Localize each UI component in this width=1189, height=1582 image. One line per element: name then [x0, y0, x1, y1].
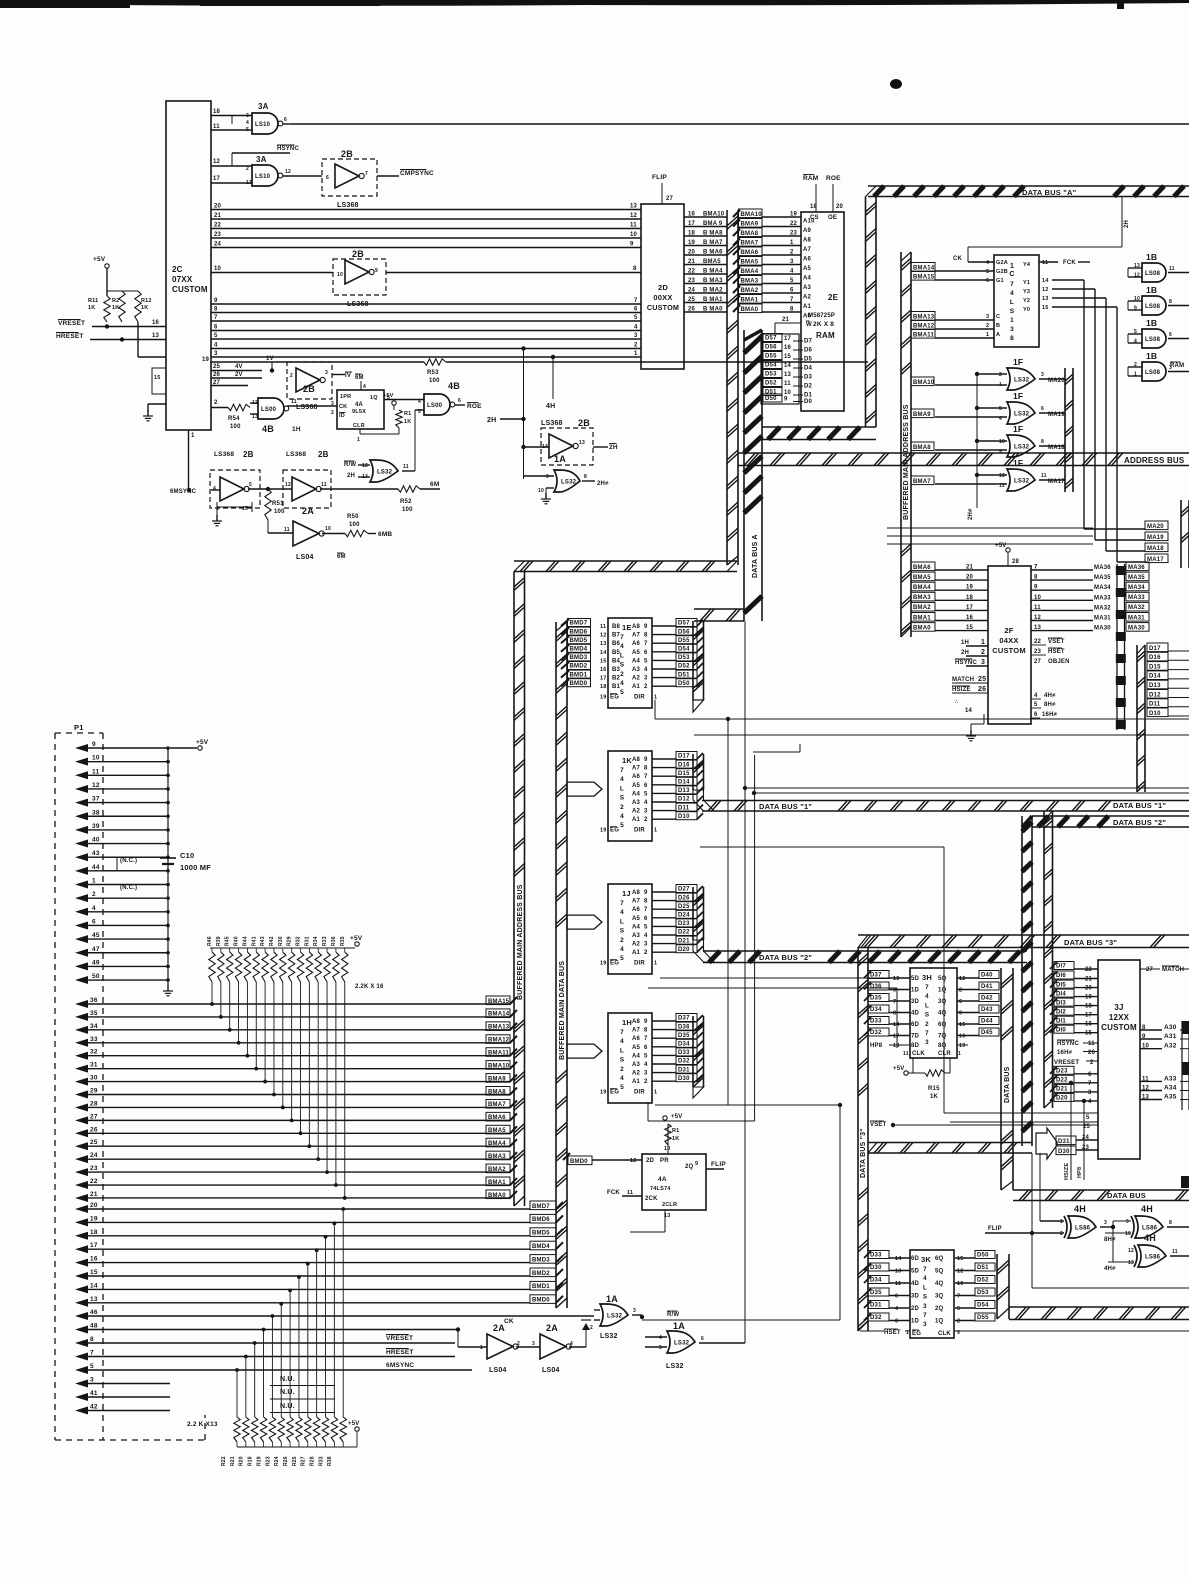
svg-text:2: 2: [959, 988, 962, 994]
svg-text:24: 24: [90, 1152, 98, 1159]
svg-text:9: 9: [1134, 306, 1137, 312]
svg-text:4: 4: [1034, 693, 1038, 699]
svg-text:A: A: [996, 332, 1000, 338]
svg-text:A6: A6: [632, 1036, 641, 1042]
svg-text:3: 3: [923, 1321, 927, 1328]
svg-text:6: 6: [634, 307, 638, 313]
svg-text:R51: R51: [272, 501, 284, 507]
svg-text:7: 7: [620, 1029, 624, 1036]
svg-text:25: 25: [213, 364, 221, 370]
svg-text:21: 21: [688, 259, 696, 265]
svg-text:2.2 K X13: 2.2 K X13: [187, 1421, 218, 1428]
svg-text:12: 12: [285, 169, 291, 175]
svg-text:BMD5: BMD5: [532, 1231, 550, 1237]
svg-text:11: 11: [1042, 260, 1048, 266]
svg-text:1: 1: [958, 1051, 961, 1057]
svg-text:17: 17: [600, 676, 607, 682]
svg-text:3A: 3A: [258, 102, 269, 111]
svg-text:4: 4: [570, 1341, 573, 1347]
svg-text:C10: C10: [180, 851, 194, 860]
svg-text:B MA3: B MA3: [703, 278, 723, 284]
svg-text:+5V: +5V: [893, 1066, 904, 1072]
svg-text:ROE: ROE: [467, 403, 482, 410]
svg-text:B3: B3: [612, 667, 621, 673]
svg-text:7: 7: [923, 1266, 927, 1273]
svg-text:10: 10: [538, 488, 544, 494]
svg-text:2E: 2E: [828, 293, 839, 302]
svg-text:CK: CK: [504, 1318, 514, 1325]
svg-text:7: 7: [214, 315, 218, 321]
svg-text:8: 8: [644, 633, 648, 639]
svg-text:CS: CS: [810, 215, 819, 221]
svg-text:12: 12: [1134, 273, 1140, 279]
svg-text:9: 9: [644, 757, 648, 763]
svg-text:8: 8: [644, 766, 648, 772]
svg-text:1: 1: [790, 240, 794, 246]
svg-text:A6: A6: [632, 774, 641, 780]
svg-text:22: 22: [90, 1178, 98, 1185]
svg-text:48: 48: [90, 1323, 98, 1330]
svg-text:19: 19: [959, 1043, 966, 1049]
svg-text:13: 13: [893, 976, 900, 982]
svg-text:MA20: MA20: [1048, 378, 1065, 384]
svg-text:DATA BUS: DATA BUS: [1107, 1191, 1146, 1200]
svg-text:8H≠: 8H≠: [1104, 1237, 1116, 1243]
svg-text:3: 3: [331, 401, 334, 407]
svg-text:VRESET: VRESET: [58, 320, 85, 327]
svg-text:2H≠: 2H≠: [968, 508, 974, 520]
svg-text:RAM: RAM: [816, 331, 835, 340]
svg-text:3: 3: [1010, 326, 1014, 333]
svg-text:7D: 7D: [911, 1034, 920, 1040]
svg-text:14: 14: [1042, 278, 1049, 284]
svg-text:MATCH: MATCH: [952, 677, 974, 683]
svg-text:A35: A35: [1164, 1094, 1177, 1101]
svg-text:D14: D14: [678, 780, 690, 786]
svg-text:D22: D22: [678, 930, 690, 936]
svg-text:6: 6: [701, 1336, 704, 1342]
svg-text:D57: D57: [765, 336, 777, 342]
svg-text:MA31: MA31: [1094, 616, 1111, 622]
svg-text:8: 8: [893, 1011, 896, 1017]
svg-text:D13: D13: [678, 788, 690, 794]
svg-text:10: 10: [92, 755, 100, 762]
svg-text:BMA15: BMA15: [488, 999, 510, 1005]
svg-text:CLR: CLR: [353, 423, 365, 429]
svg-text:R27: R27: [301, 1456, 307, 1466]
svg-text:D11: D11: [678, 805, 690, 811]
svg-text:1Q: 1Q: [935, 1319, 944, 1325]
svg-text:9: 9: [644, 890, 648, 896]
svg-text:D27: D27: [678, 887, 690, 893]
svg-text:MA30: MA30: [1128, 625, 1145, 631]
svg-text:8: 8: [644, 1028, 648, 1034]
svg-text:BMD7: BMD7: [570, 621, 588, 627]
svg-text:G2A: G2A: [996, 260, 1008, 266]
svg-text:13: 13: [90, 1296, 98, 1303]
svg-text:4: 4: [644, 800, 648, 806]
svg-text:D25: D25: [678, 904, 690, 910]
svg-text:D51: D51: [678, 672, 690, 678]
svg-text:A4: A4: [632, 791, 641, 797]
svg-text:2: 2: [92, 891, 96, 898]
svg-text:21: 21: [782, 317, 790, 323]
svg-text:MA19: MA19: [1048, 412, 1065, 418]
svg-text:13: 13: [600, 641, 607, 647]
svg-text:6: 6: [790, 288, 794, 294]
svg-text:BMA10: BMA10: [913, 380, 935, 386]
svg-text:A8: A8: [632, 890, 641, 896]
svg-text:4: 4: [620, 909, 624, 916]
svg-text:BMD5: BMD5: [570, 638, 588, 644]
svg-text:19: 19: [1085, 995, 1093, 1001]
svg-text:6: 6: [644, 1045, 648, 1051]
svg-text:19: 19: [790, 212, 798, 218]
svg-text:LS86: LS86: [1142, 1225, 1158, 1231]
svg-text:D35: D35: [678, 1033, 690, 1039]
svg-text:A3: A3: [632, 933, 641, 939]
svg-text:HSET: HSET: [1048, 649, 1065, 655]
svg-text:BUFFERED MAIN ADDRESS BUS: BUFFERED MAIN ADDRESS BUS: [517, 884, 524, 1000]
svg-text:A3: A3: [632, 1062, 641, 1068]
svg-text:3: 3: [925, 1039, 929, 1046]
svg-text:19: 19: [600, 1090, 607, 1096]
svg-text:3: 3: [644, 676, 648, 682]
svg-text:1: 1: [1010, 263, 1014, 270]
svg-text:R45: R45: [225, 936, 231, 946]
svg-text:50: 50: [92, 973, 100, 980]
svg-text:4: 4: [790, 269, 794, 275]
svg-text:LS32: LS32: [600, 1333, 618, 1340]
svg-text:A6: A6: [632, 907, 641, 913]
svg-text:CLK: CLK: [938, 1331, 951, 1337]
svg-text:D37: D37: [678, 1016, 690, 1022]
svg-text:R24: R24: [274, 1456, 280, 1466]
svg-text:LS08: LS08: [1145, 304, 1161, 310]
svg-text:4: 4: [214, 343, 218, 349]
svg-text:6M: 6M: [355, 375, 364, 381]
svg-text:LS368: LS368: [214, 451, 234, 458]
svg-text:16: 16: [152, 320, 160, 326]
svg-text:C: C: [1009, 271, 1014, 278]
svg-text:A7: A7: [632, 899, 641, 905]
svg-text:BMD0: BMD0: [532, 1298, 550, 1304]
svg-text:8: 8: [584, 474, 587, 480]
svg-text:1: 1: [654, 695, 657, 701]
svg-text:11: 11: [1172, 1249, 1178, 1255]
svg-text:4Q: 4Q: [938, 1011, 947, 1017]
svg-text:16: 16: [959, 1034, 966, 1040]
svg-text:12: 12: [1034, 615, 1042, 621]
svg-text:11: 11: [895, 1281, 901, 1287]
svg-text:DIR: DIR: [634, 828, 645, 834]
svg-text:6: 6: [1088, 1072, 1092, 1078]
svg-text:DI3: DI3: [1056, 1000, 1066, 1006]
svg-text:D54: D54: [765, 363, 777, 369]
svg-text:D23: D23: [1056, 1069, 1068, 1075]
svg-text:5: 5: [1086, 1115, 1090, 1121]
svg-text:2H: 2H: [961, 650, 969, 656]
svg-text:+5V: +5V: [196, 739, 209, 746]
svg-text:38: 38: [92, 809, 100, 816]
svg-text:MA32: MA32: [1128, 605, 1145, 611]
svg-text:A2: A2: [632, 676, 641, 682]
svg-text:7: 7: [1088, 1081, 1092, 1087]
svg-text:10: 10: [630, 232, 638, 238]
svg-text:D13: D13: [1149, 683, 1161, 689]
svg-text:16: 16: [688, 212, 696, 218]
svg-text:4: 4: [92, 905, 96, 912]
svg-text:N.U.: N.U.: [280, 1403, 295, 1410]
svg-text:3: 3: [246, 113, 249, 119]
svg-text:LS368: LS368: [337, 202, 359, 209]
svg-text:B2: B2: [612, 676, 621, 682]
svg-text:D11: D11: [1149, 702, 1161, 708]
svg-text:18: 18: [90, 1229, 98, 1236]
svg-text:BMA11: BMA11: [488, 1051, 509, 1057]
svg-text:18: 18: [600, 684, 607, 690]
svg-text:BMA14: BMA14: [913, 265, 935, 271]
svg-text:LS00: LS00: [261, 407, 277, 413]
svg-text:1: 1: [1010, 317, 1014, 324]
svg-text:16H≠: 16H≠: [1057, 1050, 1073, 1056]
svg-text:8: 8: [633, 266, 637, 272]
svg-text:D40: D40: [981, 973, 993, 979]
svg-text:A2: A2: [632, 1071, 641, 1077]
svg-text:10: 10: [325, 526, 331, 532]
svg-text:1: 1: [1134, 372, 1137, 378]
svg-text:CLK: CLK: [912, 1051, 925, 1057]
svg-text:PR: PR: [660, 1158, 669, 1164]
svg-text:1: 1: [480, 1345, 483, 1351]
svg-text:R31: R31: [304, 936, 310, 946]
svg-text:22: 22: [1034, 639, 1042, 645]
svg-text:2B: 2B: [352, 249, 364, 259]
svg-text:G2B: G2B: [996, 269, 1008, 275]
svg-text:R35: R35: [340, 936, 346, 946]
svg-text:23: 23: [90, 1165, 98, 1172]
svg-text:1F: 1F: [1013, 458, 1023, 468]
svg-text:10: 10: [337, 272, 343, 278]
svg-text:Y1: Y1: [1023, 280, 1030, 286]
svg-text:R20: R20: [239, 1456, 245, 1466]
svg-text:19: 19: [600, 828, 607, 834]
svg-text:D24: D24: [678, 913, 690, 919]
svg-text:13: 13: [784, 372, 792, 378]
svg-text:+5V: +5V: [383, 393, 394, 399]
svg-text:1Q: 1Q: [938, 988, 947, 994]
svg-text:2B: 2B: [578, 418, 590, 428]
svg-text:D36: D36: [870, 984, 882, 990]
svg-text:BMA2: BMA2: [913, 605, 931, 611]
svg-text:3: 3: [644, 942, 648, 948]
svg-text:23: 23: [688, 278, 696, 284]
svg-text:DATA BUS "1": DATA BUS "1": [759, 802, 812, 811]
svg-text:BMD4: BMD4: [570, 647, 588, 653]
svg-text:2: 2: [1060, 1231, 1063, 1237]
svg-text:1: 1: [634, 351, 638, 357]
svg-text:14: 14: [893, 1022, 900, 1028]
svg-text:MA33: MA33: [1128, 595, 1145, 601]
svg-text:26: 26: [213, 372, 221, 378]
svg-text:5: 5: [644, 924, 648, 930]
svg-text:S: S: [620, 795, 625, 802]
svg-text:12: 12: [957, 1269, 964, 1275]
svg-text:1H: 1H: [961, 640, 969, 646]
svg-text:A6: A6: [803, 257, 812, 263]
svg-text:3: 3: [893, 988, 896, 994]
svg-text:6: 6: [458, 398, 461, 404]
svg-text:A6: A6: [632, 641, 641, 647]
svg-text:18: 18: [893, 1043, 900, 1049]
svg-text:43: 43: [92, 850, 100, 857]
svg-text:4: 4: [620, 946, 624, 953]
svg-text:A5: A5: [632, 1045, 641, 1051]
svg-text:5: 5: [1034, 702, 1038, 708]
svg-text:8: 8: [1010, 335, 1014, 342]
svg-text:A2: A2: [803, 295, 812, 301]
svg-text:4D: 4D: [911, 1281, 920, 1287]
svg-text:24: 24: [1082, 1135, 1090, 1141]
svg-text:A7: A7: [632, 1028, 641, 1034]
svg-text:G1: G1: [996, 278, 1004, 284]
svg-text:7: 7: [620, 634, 624, 641]
svg-text:27: 27: [666, 196, 674, 202]
svg-text:A2: A2: [632, 942, 641, 948]
svg-text:1: 1: [981, 639, 985, 646]
svg-text:CK: CK: [339, 404, 347, 410]
svg-text:7: 7: [923, 1312, 927, 1319]
svg-text:7: 7: [620, 900, 624, 907]
svg-text:BMD0: BMD0: [570, 681, 588, 687]
svg-text:BMA3: BMA3: [913, 595, 931, 601]
svg-text:D1: D1: [804, 393, 813, 399]
svg-text:VSET: VSET: [1048, 639, 1065, 645]
svg-text:23: 23: [1034, 649, 1042, 655]
svg-text:17: 17: [784, 336, 792, 342]
svg-text:MA19: MA19: [1147, 535, 1164, 541]
svg-text:BMA4: BMA4: [913, 585, 931, 591]
svg-text:∴: ∴: [955, 699, 958, 705]
svg-text:34: 34: [90, 1023, 98, 1030]
svg-text:D21: D21: [1056, 1087, 1068, 1093]
svg-text:10: 10: [214, 266, 222, 272]
svg-text:40: 40: [92, 837, 100, 844]
svg-text:1: 1: [191, 433, 195, 439]
svg-text:BMD3: BMD3: [570, 655, 588, 661]
svg-text:2: 2: [517, 1341, 520, 1347]
svg-text:D32: D32: [870, 1315, 882, 1321]
svg-text:3: 3: [923, 1303, 927, 1310]
svg-text:6: 6: [1041, 406, 1044, 412]
svg-text:A34: A34: [1164, 1085, 1177, 1092]
svg-text:D10: D10: [678, 814, 690, 820]
svg-text:D20: D20: [1056, 1096, 1068, 1102]
svg-text:17: 17: [213, 176, 221, 182]
svg-text:04XX: 04XX: [999, 636, 1018, 645]
svg-text:BMA13: BMA13: [488, 1025, 510, 1031]
svg-text:5: 5: [246, 127, 249, 133]
svg-text:16: 16: [784, 345, 792, 351]
svg-text:4B: 4B: [262, 424, 274, 434]
svg-text:BMA15: BMA15: [913, 274, 935, 280]
svg-text:2H: 2H: [609, 444, 618, 451]
svg-text:3: 3: [895, 1319, 898, 1325]
svg-text:47: 47: [92, 946, 100, 953]
svg-text:1F: 1F: [1013, 391, 1023, 401]
svg-text:R43: R43: [260, 936, 266, 946]
svg-text:7: 7: [790, 297, 794, 303]
svg-text:4: 4: [925, 993, 929, 1000]
svg-text:1H: 1H: [622, 1018, 632, 1027]
svg-text:D42: D42: [981, 996, 993, 1002]
svg-text:D30: D30: [870, 1265, 882, 1271]
svg-text:13: 13: [246, 180, 252, 186]
svg-text:FLIP: FLIP: [652, 174, 667, 181]
svg-text:11: 11: [284, 527, 290, 533]
svg-text:3A: 3A: [256, 155, 267, 164]
svg-text:1: 1: [986, 332, 989, 338]
svg-text:22: 22: [214, 223, 222, 229]
svg-text:14: 14: [965, 708, 973, 714]
svg-text:4H≠: 4H≠: [1104, 1266, 1116, 1272]
svg-text:2: 2: [644, 1079, 648, 1085]
svg-text:R19: R19: [256, 1456, 262, 1466]
svg-text:22: 22: [790, 221, 798, 227]
svg-text:D23: D23: [678, 921, 690, 927]
svg-text:22: 22: [688, 269, 696, 275]
svg-text:+5V: +5V: [350, 935, 363, 942]
svg-text:EG: EG: [610, 695, 619, 701]
svg-text:6: 6: [284, 117, 287, 123]
svg-text:6Q: 6Q: [938, 1022, 947, 1028]
svg-text:35: 35: [90, 1010, 98, 1017]
svg-text:3: 3: [644, 1071, 648, 1077]
svg-text:3: 3: [986, 314, 989, 320]
svg-text:2: 2: [1134, 362, 1137, 368]
svg-text:D4: D4: [804, 366, 813, 372]
svg-text:EG: EG: [610, 961, 619, 967]
svg-text:A33: A33: [1164, 1075, 1177, 1082]
svg-text:2H: 2H: [487, 417, 496, 424]
svg-text:28: 28: [90, 1100, 98, 1107]
svg-text:BMA10: BMA10: [488, 1063, 510, 1069]
svg-text:HSYNC: HSYNC: [277, 146, 299, 152]
svg-text:OBJEN: OBJEN: [1048, 659, 1070, 665]
svg-text:B MA1: B MA1: [703, 297, 723, 303]
svg-text:BMA3: BMA3: [488, 1154, 506, 1160]
svg-text:27: 27: [1034, 659, 1042, 665]
svg-text:3: 3: [790, 259, 794, 265]
svg-text:30: 30: [90, 1075, 98, 1082]
svg-text:12: 12: [959, 976, 966, 982]
svg-text:CLR: CLR: [938, 1051, 951, 1057]
svg-text:A1: A1: [632, 684, 641, 690]
svg-text:1D: 1D: [911, 1319, 920, 1325]
svg-text:6MSYNC: 6MSYNC: [170, 489, 197, 495]
svg-text:2: 2: [644, 950, 648, 956]
svg-text:FLIP: FLIP: [988, 1226, 1002, 1232]
svg-text:R44: R44: [242, 936, 248, 946]
svg-text:BMA4: BMA4: [488, 1141, 506, 1147]
svg-text:BMA 9: BMA 9: [703, 221, 723, 227]
svg-text:R23: R23: [265, 1456, 271, 1466]
svg-text:4H: 4H: [546, 403, 555, 410]
svg-text:A32: A32: [1164, 1043, 1177, 1050]
svg-text:A4: A4: [803, 276, 812, 282]
svg-text:6: 6: [644, 650, 648, 656]
svg-text:LS32: LS32: [1014, 411, 1030, 417]
